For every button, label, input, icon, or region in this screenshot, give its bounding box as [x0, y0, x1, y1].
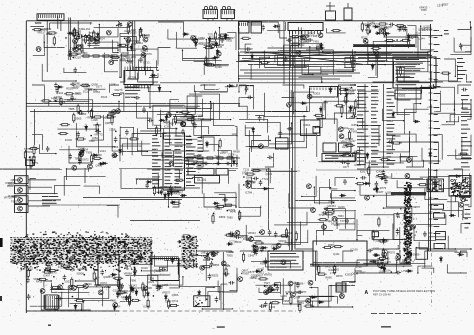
box [372, 232, 378, 237]
text left of connector [5, 178, 17, 188]
connector P102 [203, 10, 218, 19]
wiring mesh: IF top left [119, 30, 158, 82]
wire [130, 220, 200, 222]
far right text marks [457, 58, 467, 79]
box: X502 [395, 90, 421, 99]
footer page mark center [217, 326, 225, 327]
component cluster [318, 200, 347, 230]
component cluster: sound IF [361, 21, 432, 49]
text: voltage labels [73, 82, 123, 99]
connector block CN601 row1 [15, 176, 29, 184]
IC X501 audio [393, 57, 436, 88]
wire: crossing diagonal [240, 53, 342, 62]
wire [42, 204, 120, 206]
wire [268, 168, 270, 230]
pin label strip left [357, 86, 369, 165]
dark bar [391, 192, 426, 195]
wire [30, 111, 308, 113]
wire [428, 168, 430, 251]
wire: top frame horizontal bus [26, 20, 433, 22]
transformer T803 [336, 283, 346, 292]
wiring mesh: psu bottom [30, 280, 113, 310]
wire [94, 47, 130, 49]
component cluster: AGC parts [67, 43, 88, 60]
transformer T601 [45, 295, 58, 309]
component cluster [177, 235, 196, 252]
wire: left frame vertical bus [25, 21, 27, 313]
component cluster below IC301 [153, 185, 186, 199]
transistor Q701 [311, 208, 316, 213]
far right text marks [461, 95, 472, 167]
pin label strip [371, 86, 381, 165]
svg-text:—: — [212, 326, 215, 330]
wire [120, 199, 182, 201]
component cluster: IF amp Q101 [65, 27, 96, 50]
wiring mesh: top-center [238, 21, 355, 82]
dense blob irregularity [15, 238, 153, 264]
component cluster: vertical out [238, 250, 273, 282]
box: X307 [339, 143, 352, 152]
box: delay line DL301 [195, 176, 220, 184]
component cluster [249, 230, 293, 253]
wire [57, 17, 59, 30]
wire [28, 186, 52, 188]
box [434, 213, 445, 218]
wiring mesh: left AV [30, 169, 118, 218]
crystal X101 [326, 11, 336, 20]
diode D101 arrow [116, 21, 122, 26]
wire [84, 168, 86, 183]
tiny labels right of bus [434, 30, 441, 234]
wire: horizontal bus [250, 78, 340, 80]
wire [26, 103, 240, 105]
component cluster right of box [200, 250, 235, 280]
wire: horizontal bus [238, 75, 352, 77]
box: CRT socket [427, 179, 444, 192]
wire [291, 168, 293, 251]
component cluster: chroma out [242, 168, 273, 195]
transistor Q102 [73, 39, 78, 44]
wire [26, 310, 119, 312]
dense ragged blob lower edge [16, 263, 142, 271]
component cluster: top antenna parts [419, 2, 449, 12]
wire [207, 19, 209, 21]
wire [60, 21, 62, 31]
wire: horizontal bus [244, 72, 360, 74]
wire [28, 200, 56, 202]
wiring mesh: right CRT [356, 84, 471, 167]
connector block CN601 row2 [15, 186, 29, 194]
wire: horizontal bus [242, 58, 428, 60]
connector P103 [221, 10, 235, 19]
box: X305 [276, 138, 289, 149]
wire [46, 21, 48, 72]
wire [28, 179, 56, 181]
component cluster: RGB drive [355, 166, 392, 201]
wiring mesh: bottom right [356, 250, 467, 273]
component cluster below IC102 [286, 32, 324, 50]
connector P101 [37, 14, 64, 20]
wire [238, 22, 240, 82]
wiring mesh: left video [32, 85, 120, 163]
dense component field: power supply primary [10, 237, 152, 264]
box: X306 [323, 143, 336, 152]
text row under connectors [208, 39, 219, 40]
hatch top of box [151, 257, 153, 260]
wire: horizontal bus [160, 82, 430, 84]
text [134, 236, 149, 252]
wire: horizontal bus [246, 52, 428, 54]
IC X301 jungle [163, 133, 185, 190]
wire: box edge [383, 84, 385, 168]
wire [26, 105, 200, 107]
wire [28, 205, 50, 207]
text: tuner section labels [32, 21, 52, 36]
wire: page seam segment [0, 168, 62, 170]
wiring mesh: bottom center [240, 248, 355, 308]
resistor row right of IC301 [185, 157, 195, 159]
wire: horizontal bus [236, 61, 430, 63]
wiring mesh: tuner top-left [33, 22, 121, 81]
component cluster [203, 56, 222, 69]
box: power input block [151, 259, 179, 281]
text below line [316, 264, 366, 279]
box row below [188, 169, 214, 176]
wire [283, 21, 285, 84]
jack component on frame [26, 160, 35, 166]
wire [313, 261, 360, 263]
component column mid-right [338, 83, 362, 169]
wire: box edge [364, 84, 366, 168]
wire [356, 54, 430, 56]
component chain on left bus [24, 145, 39, 169]
resistor chain [82, 55, 115, 57]
wire: horizontal bus [238, 55, 432, 57]
wire [0, 168, 60, 170]
wire [315, 251, 317, 281]
wire [34, 109, 36, 145]
component cluster under blob [22, 263, 155, 302]
wire [30, 26, 44, 28]
component cluster: mid small parts [191, 35, 207, 48]
stamp box (dark) [449, 176, 471, 197]
wire: heavy double line [310, 263, 411, 265]
connector P104 [239, 22, 250, 34]
text row [194, 149, 241, 159]
wire [94, 26, 130, 28]
text rows below X306 [325, 155, 346, 159]
wiring mesh: mid-right [238, 84, 355, 167]
wire: double vertical bus [289, 30, 291, 250]
connector block CN601 row3 [15, 196, 29, 204]
footer page mark right [381, 326, 391, 327]
wire [185, 157, 240, 159]
box [436, 232, 446, 240]
wiring mesh: IF top right [158, 22, 236, 75]
wire [69, 18, 71, 61]
component cluster: video detector [41, 82, 79, 106]
wiring mesh: lower right [356, 169, 471, 250]
component cluster [212, 202, 237, 224]
dense strip: regulator area [181, 235, 197, 268]
component cluster: sync separator [72, 145, 119, 170]
resistor R102 [47, 32, 57, 34]
box outline in blob [98, 255, 119, 285]
pin ticks on right bus [429, 29, 433, 31]
box: relay [194, 296, 210, 307]
wiring mesh: top-right sound [365, 21, 471, 82]
wire: horizontal bus [240, 51, 430, 53]
box: X304 [301, 120, 321, 136]
wire [296, 200, 357, 202]
pin text rows below IC201 [125, 87, 140, 98]
box [434, 244, 445, 249]
box: X801 with rows [268, 251, 303, 270]
speckle around smudge [396, 197, 417, 267]
wiring mesh: bottom center-left [119, 251, 237, 310]
IC X201 video chroma [124, 71, 153, 85]
footer mark left [48, 325, 51, 326]
component cluster: horiz drive [259, 280, 314, 312]
box: X303 [310, 87, 338, 98]
connector block CN601 row4 [15, 205, 29, 213]
capacitor C108 [344, 8, 352, 20]
bar: ground bus (dark) [353, 44, 415, 47]
component cluster: x207 area [203, 31, 231, 49]
wire: horizontal bus [248, 64, 420, 66]
text left of connector [4, 194, 21, 203]
component cluster: Q103 stage [87, 30, 105, 45]
wiring mesh: lower mid [239, 169, 356, 249]
pin rows inside IC301 [165, 136, 173, 188]
vertical rail pair [132, 21, 134, 70]
right edge small marks [465, 186, 471, 228]
component cluster: deflection top [225, 231, 257, 246]
component cluster: focus divider [367, 238, 396, 268]
pin label column right [198, 137, 204, 170]
wire [358, 57, 426, 59]
component cluster above IC201 [116, 22, 152, 65]
box [416, 248, 427, 259]
wire [83, 197, 237, 199]
wire: horizontal bus [240, 69, 356, 71]
connector P105 [251, 22, 262, 34]
wiring mesh: center jungle [119, 84, 238, 167]
pin rows left of IC301 [152, 135, 162, 188]
page edge mark [0, 238, 3, 247]
faint text block [42, 196, 61, 204]
pin rows right of IC301 [186, 136, 196, 186]
transistor Q501 [380, 29, 385, 34]
dense vertical smudge: CRT board flyback [404, 182, 413, 264]
component cluster: right bottom band [370, 253, 420, 275]
wire: right vertical bus [430, 24, 432, 251]
wire: right section dash-dot border [431, 253, 433, 308]
wire [68, 18, 70, 61]
wire [66, 168, 68, 180]
wire [77, 21, 79, 36]
wire: bottom-right dashed frame [371, 313, 421, 315]
box [431, 204, 444, 209]
component cluster: bottom-left mid [110, 280, 178, 311]
component cluster above IC301 [163, 110, 204, 129]
scan noise blob area [12, 235, 211, 294]
box: HV block [313, 241, 367, 266]
wire [28, 193, 58, 195]
component cluster: chroma input stage [58, 107, 120, 143]
wire [222, 252, 224, 310]
wiring mesh: center deflection [121, 169, 237, 208]
IC X102 flat pack [288, 23, 323, 31]
wire [39, 19, 41, 22]
wire: bottom dashed frame [26, 310, 296, 312]
